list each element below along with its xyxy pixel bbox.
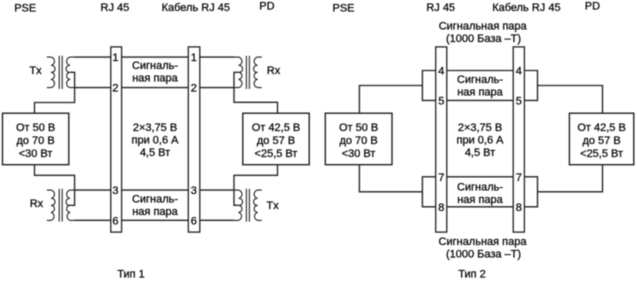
- svg-text:1: 1: [112, 52, 118, 64]
- wire T1 center tap to PSE box: [35, 72, 75, 113]
- wire J2 pin3 to T4: [200, 189, 235, 191]
- svg-text:<25,5 Вт: <25,5 Вт: [580, 148, 623, 160]
- svg-text:<30 Вт: <30 Вт: [19, 148, 53, 160]
- svg-text:<30 Вт: <30 Вт: [342, 148, 376, 160]
- svg-text:Сигналь-: Сигналь-: [457, 74, 503, 86]
- svg-text:ная пара: ная пара: [132, 206, 178, 218]
- svg-text:Сигналь-: Сигналь-: [132, 60, 178, 72]
- RJ45 connector J2 (PD side): [188, 47, 200, 232]
- svg-text:Сигнальная пара: Сигнальная пара: [439, 236, 528, 248]
- wire T4 center tap to PD box: [234, 165, 278, 206]
- PD load box (42.5-57 V): [243, 113, 309, 165]
- svg-text:до 57 В: до 57 В: [582, 135, 620, 147]
- PSE power source box (50-70 V) type2: [325, 113, 392, 165]
- wire pin5 row (cable pair): [447, 99, 513, 101]
- wire PD box to bracket 7-8: [538, 165, 603, 192]
- PSE power source box (50-70 V): [3, 113, 69, 165]
- svg-text:Сигналь-: Сигналь-: [132, 194, 178, 206]
- svg-text:1: 1: [191, 52, 197, 64]
- svg-text:2×3,75 В: 2×3,75 В: [458, 122, 502, 134]
- svg-text:Тип 2: Тип 2: [458, 269, 486, 281]
- svg-text:(1000 База –Т): (1000 База –Т): [446, 249, 521, 261]
- wire J2 pin2 to T3: [200, 87, 235, 89]
- RJ45 connector J3 (PSE side): [436, 47, 447, 232]
- wire T2 center tap to PSE box: [35, 165, 75, 206]
- svg-text:От 50 В: От 50 В: [339, 122, 378, 134]
- svg-text:PSE: PSE: [14, 2, 36, 14]
- svg-text:От 42,5 В: От 42,5 В: [252, 122, 300, 134]
- wire pin2 row (cable pair): [122, 87, 189, 89]
- svg-text:до 70 В: до 70 В: [16, 135, 54, 147]
- svg-text:2: 2: [112, 83, 118, 95]
- wire T1 to J1 pin2: [74, 87, 111, 89]
- svg-text:8: 8: [438, 202, 444, 214]
- wire T1 to J1 pin1: [74, 56, 111, 58]
- svg-text:6: 6: [191, 215, 197, 227]
- svg-text:4: 4: [516, 66, 522, 78]
- wire pin3 row (cable pair): [122, 189, 189, 191]
- svg-text:Tx: Tx: [29, 65, 42, 77]
- svg-text:6: 6: [112, 215, 118, 227]
- bracket pins 7-8 PSE side: [422, 177, 435, 207]
- svg-text:PSE: PSE: [333, 2, 355, 14]
- svg-text:ная пара: ная пара: [457, 87, 503, 99]
- svg-text:до 57 В: до 57 В: [257, 135, 295, 147]
- svg-text:Rx: Rx: [30, 198, 44, 210]
- svg-text:7: 7: [438, 172, 444, 184]
- wire pin4 row (cable pair): [447, 70, 513, 72]
- wire T2 to J1 pin6: [74, 219, 111, 221]
- svg-text:RJ 45: RJ 45: [426, 2, 455, 14]
- svg-text:Сигнальная пара: Сигнальная пара: [439, 21, 528, 33]
- svg-text:до 70 В: до 70 В: [339, 135, 377, 147]
- svg-text:2×3,75 В: 2×3,75 В: [133, 122, 177, 134]
- svg-text:От 50 В: От 50 В: [16, 122, 55, 134]
- wire T2 to J1 pin3: [74, 189, 111, 191]
- svg-text:8: 8: [516, 202, 522, 214]
- wire T3 center tap to PD box: [234, 72, 278, 113]
- svg-text:3: 3: [112, 185, 118, 197]
- svg-text:От 42,5 В: От 42,5 В: [577, 122, 625, 134]
- svg-text:4: 4: [438, 66, 444, 78]
- svg-text:4,5 Вт: 4,5 Вт: [140, 147, 170, 159]
- transformer T4 (Tx, PD side): [234, 189, 262, 222]
- svg-text:PD: PD: [585, 0, 600, 12]
- transformer T2 (Rx, PSE side): [47, 189, 75, 222]
- wire pin7 row (cable pair): [447, 176, 513, 178]
- wire bracket 4-5 to PSE box: [359, 86, 422, 114]
- wire PSE box to bracket 7-8: [359, 165, 422, 192]
- bracket pins 4-5 PSE side: [422, 71, 435, 101]
- svg-text:RJ 45: RJ 45: [101, 2, 130, 14]
- wire J2 pin6 to T4: [200, 219, 235, 221]
- RJ45 connector J1 (PSE side): [111, 47, 122, 232]
- svg-text:4,5 Вт: 4,5 Вт: [465, 147, 495, 159]
- svg-text:при 0,6 А: при 0,6 А: [132, 135, 180, 147]
- svg-text:Tx: Tx: [267, 200, 280, 212]
- svg-text:Кабель RJ 45: Кабель RJ 45: [492, 2, 560, 14]
- svg-text:Сигналь-: Сигналь-: [457, 182, 503, 194]
- RJ45 connector J4 (PD side): [513, 47, 524, 232]
- svg-text:(1000 База –Т): (1000 База –Т): [446, 33, 521, 45]
- svg-text:3: 3: [191, 185, 197, 197]
- svg-text:2: 2: [191, 83, 197, 95]
- svg-text:ная пара: ная пара: [132, 73, 178, 85]
- svg-text:5: 5: [516, 95, 522, 107]
- PD load box (42.5-57 V) type2: [569, 113, 633, 165]
- svg-text:5: 5: [438, 95, 444, 107]
- bracket pins 7-8 PD side: [524, 177, 537, 207]
- transformer T3 (Rx, PD side): [234, 56, 262, 89]
- svg-text:PD: PD: [259, 0, 274, 12]
- wire J2 pin1 to T3: [200, 56, 235, 58]
- wire pin1 row (cable pair): [122, 56, 189, 58]
- transformer T1 (Tx, PSE side): [47, 56, 75, 89]
- svg-text:Тип 1: Тип 1: [117, 269, 145, 281]
- svg-text:ная пара: ная пара: [457, 194, 503, 206]
- svg-text:<25,5 Вт: <25,5 Вт: [255, 148, 298, 160]
- svg-text:при 0,6 А: при 0,6 А: [457, 135, 505, 147]
- svg-text:7: 7: [516, 172, 522, 184]
- svg-text:Rx: Rx: [267, 65, 281, 77]
- wire pin8 row (cable pair): [447, 206, 513, 208]
- bracket pins 4-5 PD side: [524, 71, 537, 101]
- wire bracket 4-5 to PD box: [538, 86, 603, 114]
- wire pin6 row (cable pair): [122, 219, 189, 221]
- svg-text:Кабель RJ 45: Кабель RJ 45: [162, 2, 230, 14]
